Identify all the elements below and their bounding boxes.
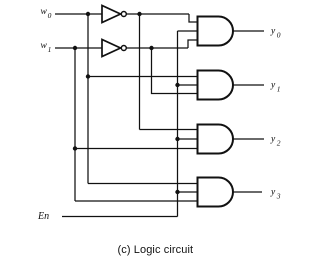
junction w1 to gate3 (73, 146, 77, 150)
svg-text:2: 2 (277, 139, 281, 148)
junction En to gate U4 (175, 137, 179, 141)
junction w1' branch (149, 46, 153, 50)
output label y1 (270, 81, 281, 94)
junction En to gate U5 (175, 190, 179, 194)
junction w1 branch (73, 46, 77, 50)
svg-text:1: 1 (48, 45, 52, 54)
NOT gate U1b (102, 40, 126, 57)
wire w0' vertical branch (139, 14, 141, 130)
AND gate U5 (198, 178, 233, 207)
output label y0 (270, 27, 281, 40)
wire w1' jog into AND gate U2 bottom input (188, 40, 198, 48)
junction w0' branch (137, 12, 141, 16)
AND gate U4 (198, 125, 234, 154)
wire w0 to AND gate U5 top input (88, 183, 198, 185)
junction w0 branch (86, 12, 90, 16)
wire w0' to AND gate U4 top input (140, 129, 198, 131)
wire w1' horizontal (127, 47, 188, 49)
wire En input (62, 216, 178, 218)
svg-text:En: En (37, 211, 49, 222)
junction w0 to gate2 (86, 74, 90, 78)
NOT gate U1 (102, 6, 126, 23)
wire output y0 (233, 30, 264, 32)
output label y2 (270, 135, 281, 148)
AND gate U3 (198, 71, 234, 100)
wire w0 input (55, 13, 102, 15)
wire w1 input (55, 47, 102, 49)
wire w1 to AND gate U5 bottom input (75, 200, 198, 202)
wire w0' jog into AND gate U2 top input (189, 14, 198, 22)
input label En (37, 211, 49, 222)
wire En vertical (177, 31, 179, 217)
junction En to gate U3 (175, 83, 179, 87)
wire En to AND gate U5 middle input (178, 191, 198, 193)
svg-text:w: w (41, 41, 48, 51)
wire output y2 (233, 138, 264, 140)
wire En to AND gate U3 middle input (178, 84, 198, 86)
svg-text:0: 0 (48, 11, 52, 20)
input label w1 (41, 41, 52, 54)
svg-text:0: 0 (277, 31, 281, 40)
wire w1 vertical branch (74, 48, 76, 201)
svg-text:y: y (270, 135, 276, 145)
wire w0' horizontal (127, 13, 189, 15)
wire w0 vertical branch (87, 14, 89, 184)
wire w0 to AND gate U3 top input (88, 76, 198, 78)
svg-text:3: 3 (276, 192, 281, 201)
wire w1 to AND gate U4 bottom input (75, 148, 198, 150)
wire w1' vertical branch to AND gate U3 bottom input (152, 48, 198, 94)
wire output y1 (233, 84, 264, 86)
svg-text:(c) Logic circuit: (c) Logic circuit (118, 244, 194, 256)
input label w0 (41, 7, 52, 20)
AND gate U2 (198, 17, 234, 46)
wire En to AND gate U4 middle input (178, 138, 198, 140)
svg-text:y: y (270, 27, 276, 37)
svg-text:y: y (270, 81, 276, 91)
wire output y3 (233, 191, 262, 193)
svg-text:1: 1 (277, 85, 281, 94)
svg-text:w: w (41, 7, 48, 17)
output label y3 (270, 188, 281, 201)
svg-text:y: y (270, 188, 276, 198)
wire En to AND gate U2 middle input (178, 30, 198, 32)
